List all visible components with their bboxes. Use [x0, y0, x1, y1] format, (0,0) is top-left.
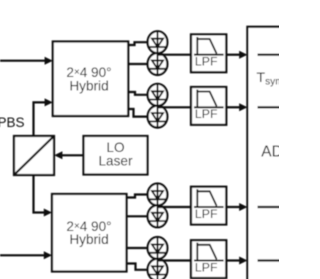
wire: LPF4 to ADC: [226, 257, 247, 265]
wire: LO laser to PBS (arrow left): [54, 151, 83, 159]
wire: balanced pair 3 tap to LPF3: [158, 206, 192, 208]
wire: signal input top (to hybrid U1): [0, 57, 53, 65]
svg-text:ADC: ADC: [261, 143, 279, 160]
LPF4 box: [191, 240, 226, 278]
hybrid U1 box: [53, 42, 128, 117]
photodiode D2: [148, 53, 168, 75]
photodiode D5: [148, 184, 168, 206]
svg-text:PBS: PBS: [0, 115, 25, 130]
svg-text:Hybrid: Hybrid: [69, 232, 108, 247]
PBS beam splitter box: [14, 136, 54, 175]
wire: balanced pair 1 tap to LPF1: [158, 54, 192, 56]
photodiode D7: [148, 237, 168, 259]
wire: hybrid U1 output 3 to D3: [128, 92, 148, 95]
photodiode D4: [148, 106, 168, 128]
wire: ADC internal line ch4: [258, 259, 281, 261]
photodiode D3: [148, 84, 168, 106]
wire: signal input bottom (to hybrid U2): [0, 251, 52, 259]
wire: hybrid U1 output 4 to D4: [128, 109, 148, 117]
photodiode D8: [148, 259, 168, 279]
wire: hybrid U1 output 2 to D2: [128, 63, 148, 65]
svg-text:Hybrid: Hybrid: [69, 78, 108, 93]
wire: hybrid U2 output 4 to D8: [127, 264, 148, 270]
wire: hybrid U2 output 1 to D5: [127, 195, 148, 198]
wire: balanced pair 2 tap to LPF2: [158, 106, 192, 108]
svg-text:LPF: LPF: [195, 260, 218, 274]
wire: ADC internal line ch1: [258, 54, 281, 56]
photodiode D1: [148, 31, 168, 53]
svg-text:Laser: Laser: [98, 154, 132, 169]
LPF1 box: [191, 34, 226, 72]
wire: LPF3 to ADC: [226, 203, 247, 211]
wire: ADC internal line ch2: [258, 106, 281, 108]
LPF3 box: [191, 187, 226, 225]
wire: PBS top output to hybrid U1 lower input: [34, 98, 53, 136]
wire: ADC internal line ch3: [258, 206, 281, 208]
wire: balanced pair 4 tap to LPF4: [158, 259, 192, 261]
LPF2 box: [191, 87, 226, 125]
wire: hybrid U2 output 2 to D6: [127, 215, 148, 217]
ADC box: [247, 27, 292, 279]
wire: LPF1 to ADC: [226, 51, 247, 59]
wire: LPF2 to ADC: [226, 103, 247, 111]
LO laser box: [84, 136, 148, 175]
svg-text:LPF: LPF: [195, 207, 218, 221]
photodiode D6: [148, 205, 168, 227]
hybrid U2 box: [52, 194, 127, 272]
wire: PBS bottom output to hybrid U2 upper input: [34, 175, 53, 217]
svg-text:LPF: LPF: [195, 107, 218, 121]
wire: hybrid U1 output 1 to D1: [128, 42, 148, 45]
wire: hybrid U2 output 3 to D7: [127, 247, 148, 249]
svg-text:LPF: LPF: [195, 55, 218, 69]
